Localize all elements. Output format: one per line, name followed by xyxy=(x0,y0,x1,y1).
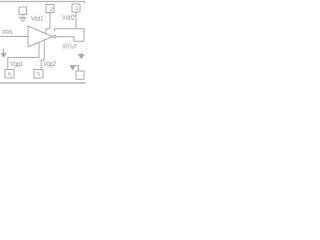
wire RFIN xyxy=(0,36,28,38)
svg-text:5: 5 xyxy=(37,72,40,78)
svg-text:RFOUT: RFOUT xyxy=(63,44,78,51)
wire Vdd2 stem xyxy=(75,12,77,29)
wire Vgg2: amp bottom to box5 xyxy=(41,40,44,69)
pin box 3 (Vdd2) xyxy=(72,4,80,12)
wire RFOUT xyxy=(56,37,84,42)
ground arrow at box4 wire xyxy=(71,67,75,70)
pin box 2 (Vdd1) xyxy=(46,5,54,13)
wire to pin box 4 xyxy=(70,66,79,72)
node output circle xyxy=(53,35,56,38)
wire Vdd2 rail xyxy=(55,29,85,42)
svg-text:2: 2 xyxy=(50,7,53,13)
svg-text:RFIN: RFIN xyxy=(3,30,13,36)
frame top line xyxy=(0,2,85,4)
pin box 4 (RF out pad) xyxy=(76,71,84,79)
pin box 1 (top-left, GND pad) xyxy=(19,7,27,15)
wire Vgg1: amp bottom to box6 xyxy=(8,42,39,69)
svg-text:Vgg1: Vgg1 xyxy=(11,61,24,68)
op-amp U1 triangle xyxy=(28,26,53,47)
frame bottom line xyxy=(0,82,86,84)
ground symbol under box1 xyxy=(19,17,26,19)
wire box1 to ground xyxy=(22,15,24,18)
svg-text:6: 6 xyxy=(8,72,11,78)
ground stem right of RFOUT xyxy=(80,53,82,55)
pin box 5 (Vgg2) xyxy=(34,70,43,79)
wire Vdd1: box2 to amp top edge xyxy=(46,13,50,34)
svg-text:3: 3 xyxy=(75,6,78,12)
svg-text:Vdd1: Vdd1 xyxy=(31,16,43,23)
ground symbol right (bar) xyxy=(78,54,84,56)
pin box 6 (Vgg1) xyxy=(5,70,14,79)
ground symbol near RFIN xyxy=(1,52,6,54)
svg-text:Vgg2: Vgg2 xyxy=(44,61,57,68)
ground stub near RFIN xyxy=(3,49,5,54)
svg-text:Vdd2: Vdd2 xyxy=(62,14,75,21)
ground arrow right xyxy=(79,56,83,59)
